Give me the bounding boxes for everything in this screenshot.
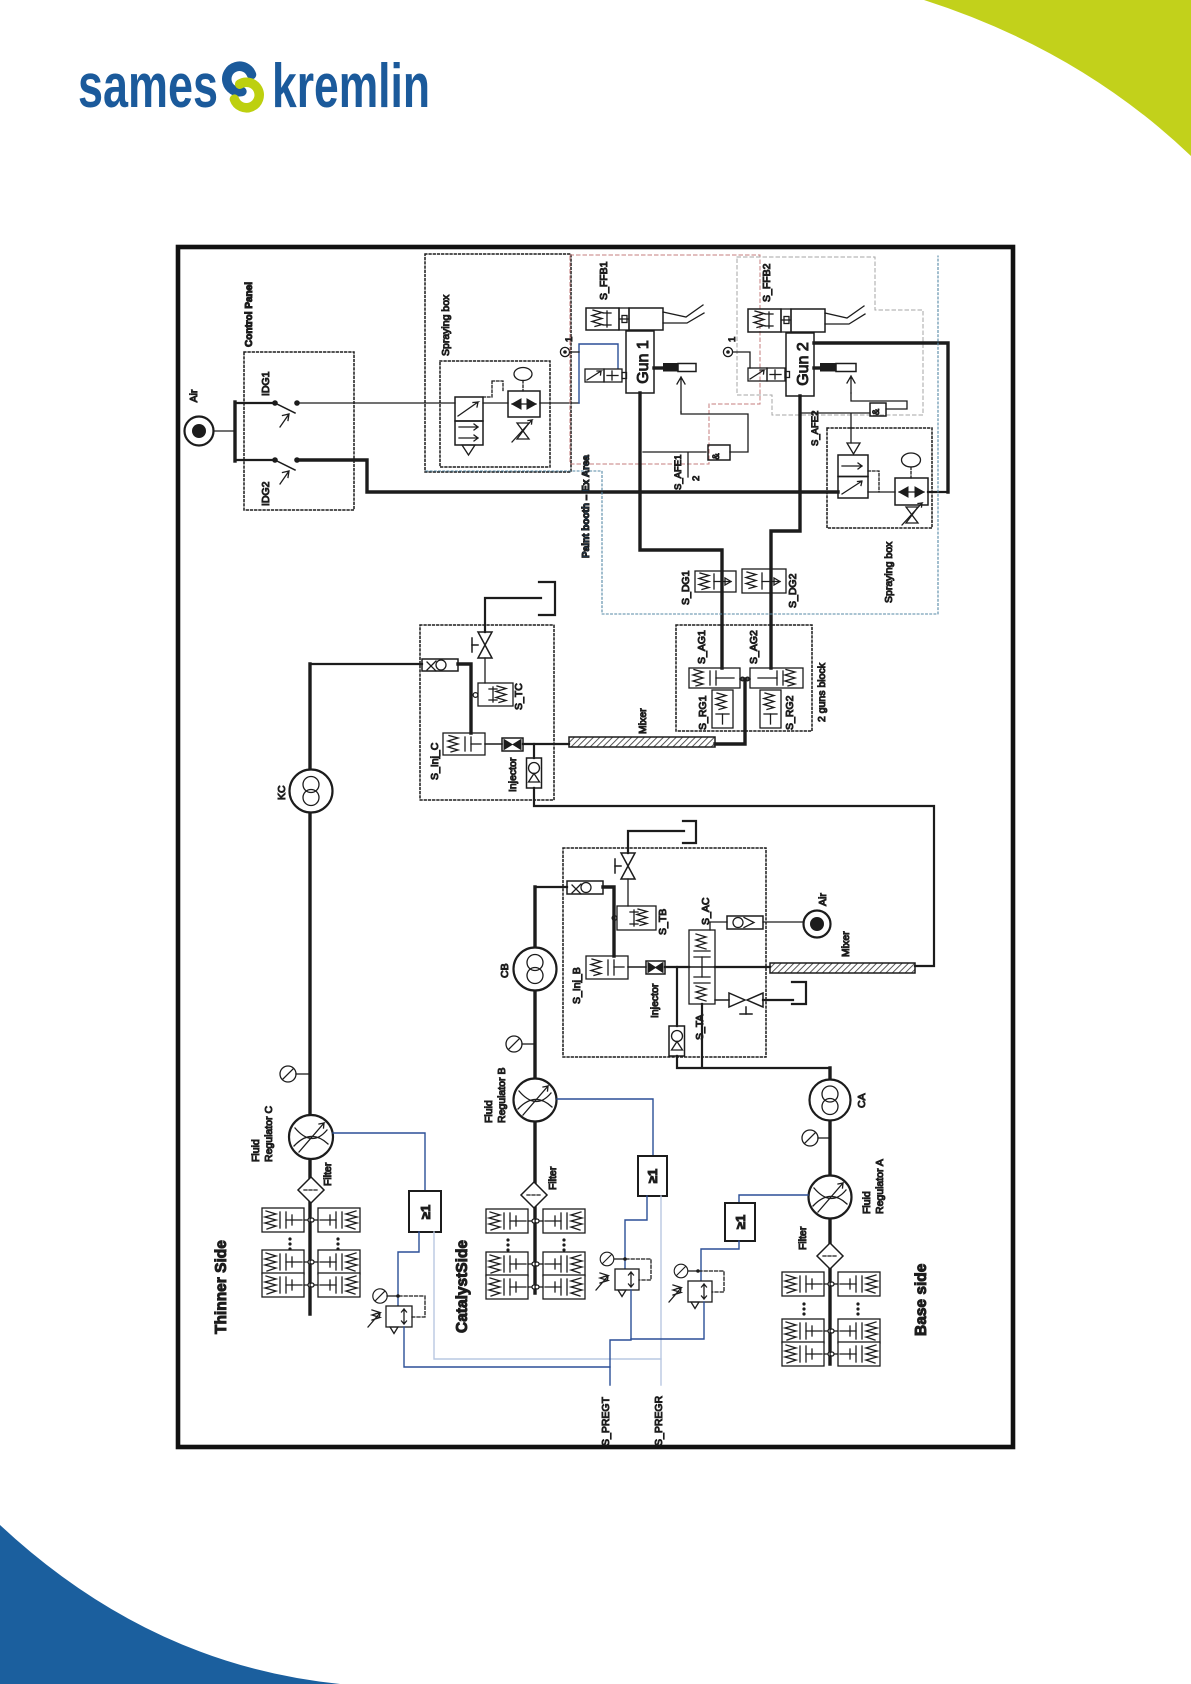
S_DG2 valve xyxy=(742,569,786,593)
AND wires gun1 xyxy=(643,412,748,477)
svg-text:Filter: Filter xyxy=(547,1166,559,1190)
check valve to air B xyxy=(710,916,803,930)
svg-text:S_FFB2: S_FFB2 xyxy=(761,263,773,302)
air source B xyxy=(804,911,831,938)
KC coil xyxy=(290,770,333,813)
svg-text:S_AG1: S_AG1 xyxy=(696,630,708,664)
svg-text:S_DG1: S_DG1 xyxy=(680,570,692,605)
base valve bank row1 left xyxy=(782,1272,832,1296)
CA coil xyxy=(810,1080,851,1121)
wire KC to check xyxy=(310,663,422,665)
OR box A xyxy=(725,1203,755,1241)
wire CB to check xyxy=(535,886,567,888)
svg-text:2 guns block: 2 guns block xyxy=(816,662,828,722)
2 guns block box xyxy=(676,625,812,731)
green corner shape top-right xyxy=(924,0,1191,156)
svg-text:S_TC: S_TC xyxy=(513,683,525,710)
S_AG2 valve xyxy=(750,668,803,688)
filter B xyxy=(521,1182,547,1208)
filter A xyxy=(817,1243,843,1269)
svg-text:Injector: Injector xyxy=(507,757,519,792)
CB coil xyxy=(514,948,557,991)
svg-text:Fluid: Fluid xyxy=(483,1100,495,1123)
svg-text:Regulator C: Regulator C xyxy=(263,1106,275,1162)
thinner valve bank row1 right xyxy=(310,1208,360,1232)
svg-text:Base side: Base side xyxy=(913,1263,930,1336)
Gun 1 body xyxy=(626,331,654,393)
blue pilot B to pot xyxy=(625,1196,647,1269)
nozzle gun1 xyxy=(654,363,696,372)
red dashed boundary gun 1 xyxy=(570,255,760,464)
wire check to S_Inj_C xyxy=(458,664,471,733)
wire valve chain 1 xyxy=(483,402,508,404)
spray arrow gun2 xyxy=(847,376,855,393)
svg-text:IDG2: IDG2 xyxy=(260,481,272,506)
ball valve C xyxy=(472,632,492,658)
AND box gun1 xyxy=(708,445,730,460)
catalyst valve bank row2 left xyxy=(486,1252,536,1276)
catalyst valve bank row2 right xyxy=(535,1252,585,1276)
Control Panel box xyxy=(244,352,354,510)
base feed link line xyxy=(677,1004,830,1068)
svg-text:IDG1: IDG1 xyxy=(260,371,272,396)
nozzle gun2 xyxy=(814,363,856,372)
svg-text:S_FFB1: S_FFB1 xyxy=(598,261,610,300)
paint booth dashed boundary xyxy=(426,256,938,614)
svg-text:S_TA: S_TA xyxy=(694,1015,706,1040)
S_TA valve xyxy=(689,967,715,1004)
wire check to S_Inj_B xyxy=(603,887,614,956)
catalyst valve bank row1 left xyxy=(486,1209,536,1233)
catalyst feed line C xyxy=(534,788,934,966)
svg-text:Mixer: Mixer xyxy=(637,708,649,734)
S_DG1 valve xyxy=(695,571,736,592)
S_Inj_C valve xyxy=(443,733,485,755)
injector B xyxy=(628,961,665,974)
hoses gun2 xyxy=(825,306,865,324)
trigger valve gun1 xyxy=(585,369,627,382)
svg-text:Regulator A: Regulator A xyxy=(874,1159,886,1214)
switch IDG2 xyxy=(272,457,300,484)
svg-text:S_Inj_C: S_Inj_C xyxy=(429,742,441,780)
svg-text:S_PREGR: S_PREGR xyxy=(653,1395,665,1446)
pilot dashes V1 xyxy=(483,381,503,397)
svg-text:S_RG2: S_RG2 xyxy=(784,695,796,730)
catalyst main line xyxy=(533,887,536,1293)
fluid regulator A xyxy=(809,1176,852,1219)
svg-text:2: 2 xyxy=(691,476,702,481)
dots catalyst bank xyxy=(506,1238,565,1251)
svg-text:Control Panel: Control Panel xyxy=(244,282,255,347)
check regulator unit R2 xyxy=(868,453,928,525)
pressure pot C xyxy=(368,1289,425,1334)
check valve C2 xyxy=(527,744,542,788)
thinner valve bank row2 right xyxy=(310,1250,360,1274)
drain tank TA xyxy=(792,982,806,1004)
svg-text:Fluid: Fluid xyxy=(861,1191,873,1214)
svg-text:Filter: Filter xyxy=(322,1162,334,1186)
wire ball to S_TB xyxy=(627,879,629,906)
svg-text:Gun 1: Gun 1 xyxy=(635,340,652,384)
blue pilot C from regulator xyxy=(333,1133,425,1191)
wire ball to S_TC xyxy=(484,658,486,683)
check valve C inlet xyxy=(422,659,458,671)
svg-text:S_AC: S_AC xyxy=(700,897,712,925)
wire block to mixer C xyxy=(715,679,745,744)
spraying box 1 outer xyxy=(425,254,571,472)
hoses gun1 xyxy=(663,305,704,323)
OR box B xyxy=(638,1156,667,1196)
S_FFB1 valve xyxy=(586,308,663,330)
fluid regulator C xyxy=(289,1115,333,1159)
svg-text:S_Inj_B: S_Inj_B xyxy=(571,967,583,1004)
dots base bank xyxy=(802,1302,859,1315)
gauge C xyxy=(280,1066,310,1082)
svg-text:≥1: ≥1 xyxy=(733,1215,748,1229)
svg-text:S_AG2: S_AG2 xyxy=(748,630,760,664)
svg-text:kremlin: kremlin xyxy=(272,52,430,121)
thinner main line xyxy=(308,664,311,1314)
svg-text:&: & xyxy=(871,408,882,415)
blue pilot A to pot xyxy=(701,1241,739,1281)
fluid regulator B xyxy=(514,1079,557,1122)
product line gun1 xyxy=(640,393,722,668)
svg-text:CatalystSide: CatalystSide xyxy=(454,1240,471,1333)
pale line B xyxy=(660,1196,662,1359)
pressure pot A xyxy=(669,1264,724,1308)
thinner valve bank row1 left xyxy=(262,1208,312,1232)
ball valve TA drain xyxy=(715,993,793,1014)
AND box gun2 xyxy=(870,403,886,416)
base main line xyxy=(828,1068,831,1364)
check valve B inlet xyxy=(567,881,603,894)
B block dotted box xyxy=(563,848,766,1057)
svg-text:1: 1 xyxy=(727,337,738,342)
svg-text:S_AFE1: S_AFE1 xyxy=(673,455,684,490)
Gun 2 body xyxy=(786,333,814,396)
svg-text:S_DG2: S_DG2 xyxy=(787,573,799,608)
gauge B xyxy=(506,1036,535,1052)
ball valve B xyxy=(615,853,635,879)
svg-text:Air: Air xyxy=(817,893,829,906)
S_RG2 valve xyxy=(760,690,781,728)
AND wires gun2 xyxy=(800,393,907,443)
check regulator unit R1 xyxy=(508,368,540,443)
drain tank C xyxy=(485,582,555,632)
thinner valve bank row3 right xyxy=(310,1273,360,1297)
spraying box 1 inner xyxy=(440,361,550,467)
svg-text:Injector: Injector xyxy=(649,983,661,1018)
C block dotted box xyxy=(420,625,554,800)
switch IDG1 xyxy=(272,400,300,427)
drain tank B xyxy=(628,821,696,853)
S_RG1 valve xyxy=(712,690,733,728)
svg-text:Paint booth – Ex Area: Paint booth – Ex Area xyxy=(581,455,592,558)
catalyst valve bank row3 left xyxy=(486,1275,536,1299)
svg-text:S_AFE2: S_AFE2 xyxy=(810,411,821,446)
base valve bank row1 right xyxy=(830,1272,880,1296)
svg-text:S_TB: S_TB xyxy=(657,909,669,935)
svg-text:CB: CB xyxy=(499,963,511,978)
svg-text:Gun 2: Gun 2 xyxy=(795,342,812,386)
junction AG xyxy=(740,677,750,681)
pressure pot B xyxy=(596,1252,651,1296)
catalyst valve bank row3 right xyxy=(535,1275,585,1299)
valve V2 3/2 spraying box 2 xyxy=(838,443,868,498)
OR box C xyxy=(409,1191,441,1232)
svg-text:Fluid: Fluid xyxy=(250,1139,262,1162)
svg-text:≥1: ≥1 xyxy=(418,1205,433,1219)
spray arrow gun1 xyxy=(677,377,685,412)
valve V1 3/2 spraying box 1 xyxy=(455,397,483,455)
S_Inj_B valve xyxy=(586,956,628,979)
svg-text:S_PREGT: S_PREGT xyxy=(600,1396,612,1446)
base valve bank row3 right xyxy=(830,1342,880,1366)
svg-text:Spraying box: Spraying box xyxy=(440,294,452,356)
wire injector B to S_AC xyxy=(665,966,689,968)
base valve bank row2 left xyxy=(782,1319,832,1343)
blue pilot C to pot xyxy=(398,1232,419,1306)
blue line pot A out xyxy=(631,1302,704,1339)
thinner valve bank row3 left xyxy=(262,1273,312,1297)
svg-text:S_RG1: S_RG1 xyxy=(697,695,709,730)
S_TC valve xyxy=(473,683,513,706)
svg-text:CA: CA xyxy=(856,1093,868,1108)
svg-text:Filter: Filter xyxy=(797,1226,809,1250)
pale line C S_PREGR xyxy=(434,1232,661,1385)
spraying box 2 xyxy=(827,428,932,528)
svg-text:Thinner Side: Thinner Side xyxy=(213,1240,230,1334)
blue line pot B out xyxy=(610,1290,631,1385)
wire to IDG2 xyxy=(235,459,273,461)
dots thinner bank xyxy=(288,1237,339,1250)
node 1 gun2 xyxy=(723,347,750,368)
logo S glyph xyxy=(227,66,259,108)
catalyst valve bank row1 right xyxy=(535,1209,585,1233)
blue pilot A from regulator xyxy=(739,1195,808,1203)
product line gun2 down xyxy=(771,396,800,668)
base valve bank row2 right xyxy=(830,1319,880,1343)
injector C xyxy=(485,738,523,751)
gauge A xyxy=(802,1130,830,1146)
base valve bank row3 left xyxy=(782,1342,832,1366)
S_AG1 valve xyxy=(689,668,740,688)
wire injector C to mixer xyxy=(523,743,569,745)
blue corner shape bottom-left xyxy=(0,1525,340,1684)
air source circle xyxy=(185,417,236,446)
svg-text:Mixer: Mixer xyxy=(840,931,852,957)
catalyst check valve B2 xyxy=(669,967,685,1056)
wire S_AC to mixer B xyxy=(715,966,770,968)
S_TB valve xyxy=(612,906,656,930)
thinner valve bank row2 left xyxy=(262,1250,312,1274)
wire IDG2 main air line xyxy=(297,460,838,492)
svg-text:Spraying box: Spraying box xyxy=(883,541,895,603)
svg-text:Regulator B: Regulator B xyxy=(496,1068,508,1123)
blue pilot wire gun1 xyxy=(579,344,618,403)
wire IDG1 to spraying box xyxy=(297,402,455,404)
trigger valve gun2 xyxy=(748,368,790,381)
blue line pot C out S_PREGT xyxy=(404,1327,610,1367)
wire to IDG1 xyxy=(235,402,273,404)
filter C xyxy=(298,1177,324,1203)
node 1 gun1 xyxy=(560,347,579,356)
svg-text:KC: KC xyxy=(276,785,288,800)
wire air junction bar xyxy=(233,402,236,461)
svg-text:sames: sames xyxy=(78,52,218,121)
product line gun2 top xyxy=(814,343,948,492)
mixer B bar xyxy=(770,963,915,973)
gray dashed boundary gun 2 xyxy=(737,257,923,415)
svg-text:&: & xyxy=(711,453,722,460)
S_AC valve xyxy=(689,930,715,967)
svg-text:≥1: ≥1 xyxy=(645,1169,660,1183)
blue pilot B from regulator xyxy=(557,1099,653,1156)
wires spraying box 2 xyxy=(868,491,895,493)
svg-text:Air: Air xyxy=(188,389,200,402)
mixer C bar xyxy=(569,737,715,747)
schematic border frame xyxy=(178,247,1013,1447)
S_FFB2 valve xyxy=(748,309,825,332)
